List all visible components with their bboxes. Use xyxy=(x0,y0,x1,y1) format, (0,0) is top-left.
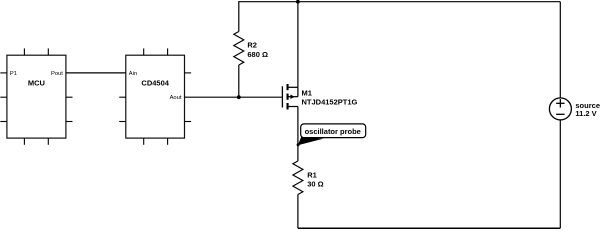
CD4504 right pin stubs xyxy=(185,73,192,122)
minus sign xyxy=(556,113,565,115)
wire top rail down to R2 xyxy=(238,1,240,31)
CD4504 left pin stubs (pin Ain on wire above) xyxy=(119,97,126,121)
plus sign xyxy=(556,99,565,107)
R2 zigzag body xyxy=(234,32,244,65)
voltage source V1 xyxy=(549,98,600,120)
MCU top pin stubs xyxy=(24,48,48,55)
resistor R2 xyxy=(234,32,268,65)
MCU body xyxy=(7,55,66,138)
wire top rail down to source + xyxy=(559,2,561,98)
M1 body stub with arrow xyxy=(288,94,298,99)
R1 zigzag body xyxy=(293,161,303,194)
svg-text:680 Ω: 680 Ω xyxy=(247,50,268,59)
junction node drain column on top rail xyxy=(296,0,300,4)
svg-text:Ain: Ain xyxy=(129,71,137,77)
wire R2 down to gate-wire junction xyxy=(238,65,240,97)
source circle xyxy=(549,98,571,120)
svg-text:11.2 V: 11.2 V xyxy=(575,109,596,118)
wire source - down to bottom rail xyxy=(559,120,561,228)
M1 drain stub xyxy=(288,86,298,88)
IC CD4504 xyxy=(119,48,191,144)
MCU bottom pin stubs xyxy=(24,138,48,145)
M1 channel segments xyxy=(286,84,288,110)
svg-text:R2: R2 xyxy=(247,41,257,50)
callout tail xyxy=(298,137,324,146)
svg-text:MCU: MCU xyxy=(28,78,45,87)
MCU right pin stubs xyxy=(66,97,73,121)
wire M1 source down to R1 xyxy=(297,107,299,162)
svg-text:NTJD4152PT1G: NTJD4152PT1G xyxy=(302,98,358,107)
CD4504 top pin stubs xyxy=(144,48,168,55)
svg-text:CD4504: CD4504 xyxy=(141,78,169,87)
transistor M1 xyxy=(282,84,357,110)
wire Pout to Ain xyxy=(66,72,126,74)
IC MCU xyxy=(0,48,72,144)
junction node R2 bottom on gate wire xyxy=(237,95,241,99)
resistor R1 xyxy=(293,161,324,194)
M1 body-to-drain link xyxy=(297,87,299,96)
wire bottom return rail xyxy=(298,227,560,229)
M1 source stub xyxy=(288,106,298,108)
svg-text:R1: R1 xyxy=(307,170,317,179)
MCU left pin stubs (pin P1 topmost) xyxy=(0,73,7,122)
callout anchor dot on wire xyxy=(297,143,300,146)
CD4504 body xyxy=(126,55,185,138)
svg-text:30 Ω: 30 Ω xyxy=(307,180,323,189)
svg-text:P1: P1 xyxy=(10,71,17,77)
svg-text:Pout: Pout xyxy=(51,71,63,77)
M1 gate bar xyxy=(281,86,283,107)
wire top supply rail xyxy=(239,1,561,3)
svg-text:oscillator probe: oscillator probe xyxy=(305,127,361,136)
callout bubble xyxy=(301,124,366,138)
wire top rail down to M1 drain xyxy=(297,2,299,88)
callout flag oscillator probe xyxy=(297,124,366,146)
wire Aout to M1 gate xyxy=(185,96,282,98)
wire R1 down to bottom rail xyxy=(297,195,299,229)
CD4504 bottom pin stubs xyxy=(144,138,168,145)
svg-text:M1: M1 xyxy=(302,88,312,97)
svg-text:Aout: Aout xyxy=(170,95,182,101)
